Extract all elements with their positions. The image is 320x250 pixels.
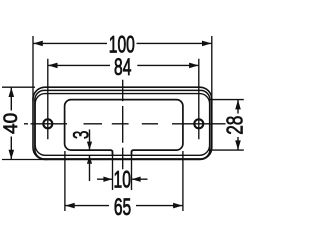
svg-text:65: 65	[114, 195, 131, 221]
arrowheads dim 3	[87, 142, 92, 150]
arrowheads dim 40	[9, 88, 15, 98]
arrowheads dim 10	[103, 177, 112, 182]
dim 65: dimension line	[65, 205, 183, 207]
dim 100: extension lines	[33, 36, 212, 107]
svg-text:28: 28	[223, 116, 248, 135]
dim 28: dimension line	[237, 100, 239, 151]
svg-text:10: 10	[114, 167, 131, 193]
arrowheads dim 100	[33, 41, 43, 47]
svg-text:40: 40	[1, 113, 22, 134]
technical dimension drawing of rectangular lamp housing	[0, 0, 250, 250]
horizontal centerline	[24, 123, 226, 125]
dim 65: extension lines	[65, 151, 183, 211]
dim 10: extension lines	[113, 151, 132, 191]
left mounting hole	[43, 119, 52, 128]
inner rim contour	[35, 90, 210, 158]
dim 100: dimension line	[33, 42, 212, 44]
hole centerlines / dim 84 extension lines	[48, 59, 199, 140]
lens opening with bottom-center notch	[65, 100, 183, 156]
dim 10: dimension line	[97, 178, 148, 180]
dim 3: leader lines	[89, 130, 91, 182]
dim 40: dimension line	[10, 87, 12, 159]
vertical centerline	[122, 80, 124, 170]
dim 84: dimension line	[48, 64, 199, 66]
svg-text:84: 84	[114, 55, 131, 81]
dim 40: extension lines	[2, 87, 48, 159]
arrowheads dim 65	[65, 203, 75, 209]
svg-text:3: 3	[70, 131, 94, 140]
step contour	[35, 94, 209, 156]
arrowheads dim 84	[48, 63, 58, 69]
dim 28: extension lines	[209, 100, 244, 151]
right mounting hole	[194, 119, 203, 128]
arrowheads dim 28	[235, 100, 241, 110]
outer housing contour	[33, 87, 212, 159]
